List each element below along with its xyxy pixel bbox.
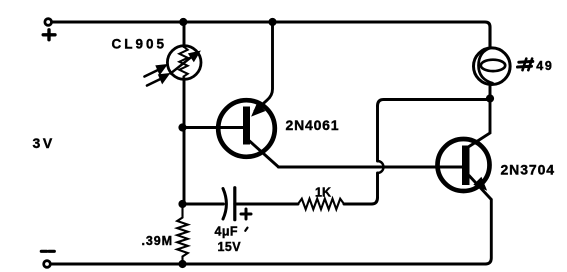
- svg-text:4μF: 4μF: [215, 224, 238, 238]
- junction top-left: [179, 18, 187, 26]
- wire Q1 collector to Q2 base: [279, 166, 464, 169]
- junction top-mid: [268, 18, 276, 26]
- wire hop: [378, 161, 384, 173]
- battery terminal +: [43, 19, 55, 40]
- svg-text:2N4061: 2N4061: [286, 117, 340, 133]
- transistor Q1 2N4061: [218, 22, 278, 167]
- wire left vertical: [183, 79, 186, 205]
- junction bottom: [178, 260, 186, 268]
- svg-text:CL905: CL905: [112, 36, 168, 51]
- junction cap row: [178, 200, 186, 208]
- wire cap left lead: [183, 203, 224, 206]
- wire feedback top: [378, 100, 491, 107]
- battery terminal -: [41, 251, 54, 267]
- wire vertical feedback with hop: [376, 106, 379, 198]
- light arrows: [145, 65, 170, 86]
- junction lamp bottom: [486, 94, 494, 102]
- wire top rail: [52, 22, 490, 47]
- wire feedback bottom corner: [372, 198, 378, 205]
- resistor 1K: [298, 199, 344, 210]
- wire Q1 base lead: [183, 126, 245, 129]
- junction base Q1: [178, 123, 186, 131]
- photocell CL905: [167, 46, 201, 80]
- label #49: [518, 59, 533, 71]
- wire Q2 collector lead: [469, 99, 490, 147]
- wire 1K to corner: [344, 203, 372, 206]
- resistor .39M: [177, 204, 188, 264]
- svg-text:15V: 15V: [218, 240, 242, 254]
- transistor Q2 2N3704: [438, 139, 492, 264]
- wire photocell top lead: [183, 22, 186, 47]
- lamp #49: [474, 48, 511, 99]
- svg-text:.39M: .39M: [142, 234, 173, 248]
- svg-text:2N3704: 2N3704: [501, 162, 555, 178]
- wire cap to 1K: [235, 203, 298, 206]
- svg-text:1K: 1K: [315, 185, 331, 199]
- svg-text:49: 49: [536, 59, 553, 73]
- tick mark: [245, 228, 247, 231]
- svg-text:3V: 3V: [33, 135, 55, 151]
- wire bottom rail: [51, 262, 485, 265]
- capacitor C1: [223, 188, 251, 220]
